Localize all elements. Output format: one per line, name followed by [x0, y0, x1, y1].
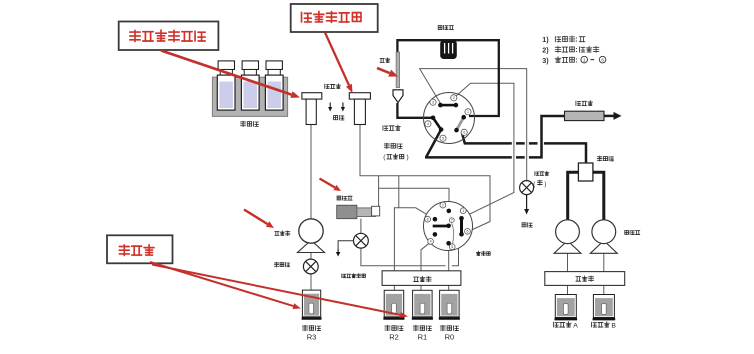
red arrow to metering pump: [320, 179, 335, 188]
svg-text:2): 2): [542, 46, 549, 55]
label high-pressure-valve: [384, 143, 389, 149]
pump B: [590, 241, 617, 254]
red arrow to needle: [377, 68, 390, 73]
svg-text:1: 1: [462, 209, 464, 213]
bottle R2: [384, 290, 404, 317]
label injection-port: [383, 126, 388, 131]
svg-text::: :: [575, 35, 577, 44]
label column: [576, 101, 581, 106]
label metering-pump: [337, 196, 341, 200]
svg-text:1: 1: [583, 57, 586, 62]
metering pump: [337, 205, 357, 219]
wire R1 bottle to low-pressure valve: [421, 242, 430, 305]
bottle R0: [440, 290, 460, 317]
port 4: [425, 121, 431, 127]
drain valve closed: [520, 181, 534, 195]
rotor bar ports 4-5: [433, 118, 441, 130]
callout box standard-wash-port: [291, 4, 378, 32]
svg-text:R3: R3: [307, 333, 317, 342]
sample vial 1: [218, 61, 234, 70]
wire mixer to pump B: [593, 172, 604, 220]
bottle R1: [413, 290, 433, 317]
needle tube: [396, 52, 400, 88]
low-pressure valve body U2: [424, 202, 473, 251]
wire valve port6 to mixer: [462, 133, 465, 144]
svg-text:(: (: [533, 182, 535, 188]
svg-text:6: 6: [467, 230, 469, 234]
sample tray: [212, 77, 287, 116]
svg-text:3): 3): [542, 56, 549, 65]
manual priming valve: [354, 233, 369, 248]
wire pump B to degasser to mobile phase B: [603, 253, 605, 305]
wash port P1: [302, 93, 322, 99]
label drain bottom: [522, 223, 526, 227]
column: [565, 111, 605, 120]
label wash-pump: [275, 231, 279, 235]
svg-text:5: 5: [451, 245, 453, 249]
wire metering pump feed branch: [378, 176, 380, 207]
svg-text:6: 6: [463, 131, 465, 135]
svg-text:A: A: [573, 323, 578, 330]
wire R0 bottle to low-pressure valve: [448, 243, 450, 305]
port 5: [449, 244, 455, 250]
port 6: [461, 129, 467, 135]
red arrow to bottle R3: [150, 262, 293, 306]
label drain: [334, 116, 338, 120]
label needle: [380, 58, 384, 62]
wire sample loop rectangle: [396, 40, 499, 116]
sample vial 3: [266, 61, 282, 70]
red arrow to wash pump: [244, 210, 268, 225]
bottle R3: [302, 290, 320, 317]
red arrow to wash port P1: [161, 51, 292, 95]
degasser right: [545, 272, 625, 286]
rotor bar ports 1-6 gray: [457, 117, 464, 130]
svg-text:4: 4: [430, 240, 432, 244]
bottle mobile-phase A: [555, 295, 576, 318]
label low-pressure-valve: [476, 251, 480, 255]
rotor bar ports 3-2: [440, 104, 456, 107]
rotor bar vertical right: [460, 218, 463, 234]
wire pump A to degasser to mobile phase A: [567, 253, 569, 305]
svg-text:3: 3: [432, 101, 434, 105]
wire R2 bottle to low-pressure valve: [394, 208, 434, 305]
svg-text:(: (: [383, 154, 386, 161]
svg-text:7: 7: [451, 219, 453, 223]
svg-text:5: 5: [442, 137, 444, 141]
svg-text:): ): [544, 182, 546, 188]
port 3: [430, 99, 436, 105]
label drain-valve: [535, 172, 539, 176]
svg-text:2: 2: [453, 96, 455, 100]
svg-text:R1: R1: [418, 333, 428, 342]
label sample-bottles: [241, 121, 246, 127]
wire high-pressure valve port3 to drain valve: [420, 69, 527, 181]
port 8: [425, 216, 431, 222]
port 2: [451, 95, 457, 101]
wire metering pump to low-pressure valve: [379, 188, 449, 209]
mixer: [578, 163, 593, 181]
drain valve outlet arrow: [526, 195, 528, 209]
callout box wash-liquid: [107, 235, 173, 263]
svg-text:R2: R2: [389, 333, 399, 342]
port 4: [428, 239, 434, 245]
svg-text:R0: R0: [445, 333, 455, 342]
wash port P2: [349, 93, 370, 99]
svg-text::: :: [575, 45, 577, 54]
port 7: [449, 218, 454, 223]
svg-text:2: 2: [442, 203, 444, 207]
high-pressure valve body U1: [424, 93, 475, 144]
svg-text:B: B: [611, 323, 616, 330]
label mixer: [597, 156, 602, 161]
label sample-loop: [438, 25, 442, 29]
svg-text:6: 6: [601, 57, 604, 62]
svg-text:): ): [407, 154, 409, 161]
wash pump: [298, 240, 325, 252]
degasser left: [382, 271, 461, 286]
wire metering pump inlet to priming valve: [360, 219, 362, 234]
wire center to port5 curve: [452, 223, 454, 244]
svg-text::: :: [575, 55, 577, 64]
svg-text:1): 1): [542, 35, 549, 44]
wire wash pump chain to R3 bottle: [310, 253, 312, 306]
red arrow to bottle R1: [152, 265, 400, 315]
wire needle line to high-pressure valve port4: [397, 103, 433, 118]
wire wash-port1 to wash pump: [310, 125, 312, 220]
pump A: [554, 241, 581, 254]
label pump-unit: [625, 230, 629, 234]
bottle mobile-phase B: [593, 295, 614, 318]
svg-text:1: 1: [467, 110, 469, 114]
port 2: [440, 202, 446, 208]
port 1: [465, 109, 471, 115]
port 5: [440, 135, 446, 141]
port 1: [460, 208, 466, 214]
port 6: [465, 228, 471, 234]
label manual-priming-valve: [342, 274, 346, 278]
wire high-pressure valve port2 to low-pressure valve: [455, 83, 514, 218]
wire rinse branch to R2 line: [398, 176, 400, 208]
priming valve drain arrow: [338, 241, 354, 249]
label wash-port: [325, 84, 329, 88]
solenoid valve: [303, 259, 318, 274]
sample vial 2: [242, 61, 258, 70]
wire wash-port2 rinse distribution line: [360, 125, 490, 232]
callout box wash-pump-wash-port: [119, 22, 219, 51]
drain arrows between wash ports: [329, 103, 331, 108]
column outlet arrow: [604, 115, 614, 118]
wire valve port5 to column: [426, 130, 441, 158]
rotor bar horizontal: [433, 225, 449, 228]
wire mixer to pump A: [568, 172, 579, 220]
red arrow to wash port P2: [325, 33, 349, 86]
label solenoid-valve: [274, 262, 278, 267]
sample loop coil: [440, 40, 457, 59]
svg-text:4: 4: [427, 122, 429, 126]
svg-text:8: 8: [427, 218, 429, 222]
needle tip: [393, 90, 403, 103]
wire manual priming valve drain to valve port5: [361, 248, 459, 266]
